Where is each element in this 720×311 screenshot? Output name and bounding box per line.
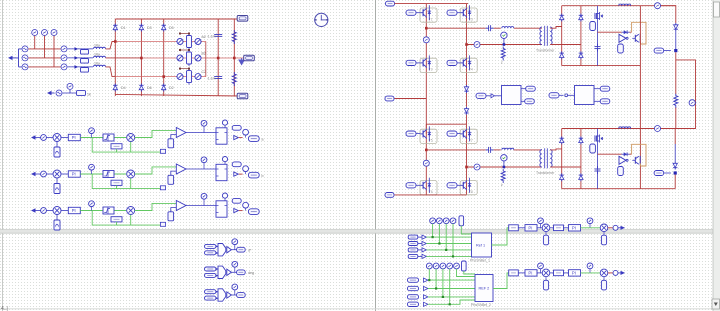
wire rect leg1 u1 <box>561 6 563 66</box>
wire label to top rail <box>395 3 420 5</box>
aux meter circle <box>67 83 73 89</box>
diode D5 <box>162 24 166 32</box>
wire <box>537 227 542 229</box>
svg-text:D3: D3 <box>147 26 152 30</box>
svg-text:D1: D1 <box>121 26 126 30</box>
diode rect D22 <box>579 136 583 144</box>
wire phase B <box>28 57 60 59</box>
current arrow A <box>75 47 79 51</box>
page boundary vertical line left <box>2 0 4 311</box>
vbox below sum1 g2 <box>543 277 548 290</box>
logic block A out top <box>521 86 535 91</box>
wire <box>550 227 554 229</box>
wire phase A bus <box>115 41 206 43</box>
green inputs lower g1 <box>426 237 471 256</box>
green bus g2 <box>429 269 475 304</box>
wire phase A <box>28 48 60 50</box>
junction sense node <box>503 43 506 46</box>
vbox below sum1 g1 <box>543 232 548 245</box>
wire secondary bottom u1 <box>550 44 581 46</box>
wire rect leg2 u2 <box>580 129 582 189</box>
wire top rail u1 <box>420 3 469 5</box>
voltmeter VC <box>51 30 57 36</box>
horizontal page band <box>0 230 720 234</box>
green wire block to chain g1 <box>492 228 510 245</box>
logic bubble B <box>565 94 568 97</box>
wire sec top rail u2 <box>562 128 676 130</box>
svg-text:PhsShBet_2: PhsShBet_2 <box>471 303 491 307</box>
snubber row B right device <box>194 55 202 61</box>
gate oval u1 <box>654 48 671 53</box>
wire clamp branch u1 <box>597 6 599 66</box>
svg-text:Transformer: Transformer <box>536 49 555 53</box>
vbox below sum2 g2 <box>601 277 606 290</box>
snubber row A box <box>179 33 192 50</box>
chain sum1 g2 <box>542 269 550 277</box>
diode D3 <box>139 24 143 32</box>
diode D4 <box>113 84 117 92</box>
current arrow B <box>75 56 79 60</box>
wire primary top u1 <box>426 27 485 29</box>
scrollbar down button <box>712 299 720 309</box>
label bottom left u2 <box>385 193 394 198</box>
chain PI2 g2 <box>569 270 581 276</box>
load loop <box>640 52 695 128</box>
wire bridge column 3 <box>163 19 165 96</box>
wire B jog to bridge <box>106 57 142 59</box>
red curl u1 <box>632 22 646 44</box>
svg-text:z: z <box>501 61 503 65</box>
wire return column <box>639 6 641 189</box>
diode series link 2 <box>464 107 468 115</box>
junction A col1 <box>114 40 117 43</box>
logic block B <box>575 86 595 105</box>
resistor R2 <box>232 72 236 86</box>
chain g1 <box>509 218 625 245</box>
snubber row A left device <box>176 39 184 45</box>
supply box u1 <box>618 44 624 53</box>
wire node to bottom rail u2 <box>674 175 676 189</box>
wire bridge column 2 <box>140 19 142 96</box>
meters row g2 <box>426 263 432 269</box>
meter primary bottom <box>474 42 480 48</box>
ground arrow mid <box>239 58 244 65</box>
wire to load corner u1 <box>661 6 676 23</box>
resistor sense u2 <box>501 169 505 183</box>
input labels g1 <box>408 235 422 239</box>
load resistor <box>674 94 678 108</box>
svg-text:REF 2: REF 2 <box>479 287 490 291</box>
gate label Q2 <box>447 10 460 15</box>
current arrow C <box>75 65 79 69</box>
junction mid cap <box>217 57 220 60</box>
junction B col2 <box>140 57 143 60</box>
capacitor series u1 <box>486 25 494 31</box>
out arrow g2 <box>621 271 626 275</box>
capacitor series u2 <box>486 147 494 153</box>
green wire block to chain g2 <box>493 273 509 289</box>
output inductor u1 <box>619 4 631 6</box>
wire dc top rail <box>115 18 240 20</box>
small circle g1 <box>613 225 618 230</box>
source VA <box>22 46 28 52</box>
svg-text:B2: B2 <box>202 52 206 56</box>
wire clamp node u2 <box>598 153 632 155</box>
mosfet clamp u1 <box>595 12 603 20</box>
logic block A <box>502 86 522 105</box>
aux port arrow <box>47 91 55 95</box>
diode rect D13 <box>560 51 564 59</box>
svg-text:PI: PI <box>528 271 532 276</box>
wire diode to node u2 <box>674 144 676 162</box>
snubber row C left device <box>176 74 184 80</box>
wire primary bottom u2 <box>467 166 542 168</box>
gate label Q8 <box>447 183 460 188</box>
capacitor C1 1.1m <box>214 34 222 37</box>
svg-text:A2: A2 <box>202 35 206 39</box>
meter above g1b <box>587 218 593 228</box>
out transistor u2 <box>632 156 640 165</box>
svg-text:Transformer: Transformer <box>536 171 555 175</box>
ammeter leg1 u2 <box>423 160 429 166</box>
capacitor clamp u2 <box>595 166 601 174</box>
resistor R1 <box>232 30 236 44</box>
diode clamp u1 <box>622 30 630 34</box>
control row 2 <box>31 157 259 194</box>
wire snubber right tie <box>205 42 207 77</box>
green junction dots g2 <box>428 279 430 281</box>
wire aux <box>62 90 76 93</box>
wire clamp node u1 <box>598 31 632 33</box>
wire bottom left u1 <box>395 98 427 100</box>
meter above g2b <box>587 263 593 273</box>
svg-text:a: a <box>262 138 264 142</box>
chain g2 <box>509 263 625 290</box>
source box g2 <box>462 261 467 271</box>
logic bubble u1 <box>491 94 494 98</box>
snubber row C box <box>179 68 192 85</box>
meter above primary bottom u2 <box>501 155 507 167</box>
inductor LA <box>94 47 106 49</box>
wire rect leg1 u2 <box>561 129 563 189</box>
IGBT Q8 <box>460 181 477 195</box>
probe mid <box>244 55 255 61</box>
capacitor clamp u1 <box>595 44 601 52</box>
sensor box C <box>81 68 89 73</box>
snubber row A right device <box>194 39 202 45</box>
svg-text:z: z <box>501 183 503 187</box>
junction primary bottom <box>465 43 468 46</box>
gate box clamp u2 <box>590 144 596 153</box>
svg-text:b: b <box>262 174 264 178</box>
svg-text:PhsShBet_1: PhsShBet_1 <box>470 259 490 263</box>
svg-text:10u: 10u <box>94 52 100 56</box>
inductor LC <box>94 65 106 67</box>
wire voltmeter stem C <box>53 36 55 67</box>
snubber row C right device <box>194 74 202 80</box>
wire secondary top u1 <box>550 27 562 29</box>
svg-text:10u: 10u <box>94 43 100 47</box>
green bus g1 <box>433 224 472 257</box>
svg-text:10u: 10u <box>94 61 100 65</box>
diode load u2 <box>673 162 677 170</box>
svg-text:D4: D4 <box>121 86 126 90</box>
chain sum1 g1 <box>542 224 550 232</box>
wire leg1 u1 <box>425 4 427 134</box>
gate label Q1 <box>406 10 420 15</box>
green junction dots g1 <box>432 236 434 238</box>
svg-text:1.1m: 1.1m <box>208 77 216 81</box>
meter above primary bottom <box>501 32 507 44</box>
phase shift block g2 <box>475 275 493 302</box>
port arrow neutral <box>8 56 16 60</box>
gate label Q6 <box>447 131 460 136</box>
ammeter leg1 u1 <box>423 37 429 43</box>
sensor box B <box>81 59 89 64</box>
wire clamp branch u2 <box>597 129 599 189</box>
snubber row B left device <box>176 55 184 61</box>
junction primary top <box>425 27 428 30</box>
diode D6 <box>139 84 143 92</box>
voltmeter VB <box>42 30 48 36</box>
wire inductor to transformer u2 <box>514 149 542 151</box>
sensor box A <box>81 50 89 55</box>
red stub g2 <box>608 272 613 274</box>
out transistor u1 <box>632 34 640 43</box>
chain box1 g2 <box>509 270 519 276</box>
meters row g1 <box>430 218 436 224</box>
small circle g2 <box>613 270 618 275</box>
wire dc bottom rail <box>115 94 240 96</box>
svg-text:1k: 1k <box>87 93 91 97</box>
node square u2 <box>674 171 677 174</box>
chain PI2 g1 <box>569 225 581 231</box>
transformer u2 <box>540 148 552 168</box>
green inputs lower g2 <box>428 280 475 304</box>
wire to load corner u2 <box>661 129 675 145</box>
IGBT Q5 <box>420 129 437 143</box>
wire leg1 u2 <box>425 124 427 195</box>
IGBT Q1 <box>420 8 437 22</box>
control row 1 <box>31 120 259 157</box>
wire B to sensor <box>67 57 93 59</box>
logic block B out bottom <box>594 99 610 104</box>
vbox below sum2 g1 <box>601 232 606 245</box>
svg-text:1.1m: 1.1m <box>208 35 216 39</box>
gate label Q4 <box>447 60 460 65</box>
chain PI g1 <box>525 225 537 231</box>
wire leg2 u1 <box>466 4 468 86</box>
gate oval u2 <box>654 171 671 176</box>
junction sense node u2 <box>503 166 506 169</box>
wire voltmeter stem B <box>44 36 46 58</box>
IGBT Q3 <box>420 58 437 72</box>
supply box u2 <box>618 167 624 176</box>
IGBT Q2 <box>460 8 477 22</box>
wire <box>518 227 525 229</box>
mux cluster 2 <box>205 261 246 278</box>
diode rect D12 <box>579 14 583 22</box>
wire diode to node u1 <box>675 31 677 51</box>
svg-text:PI: PI <box>572 226 576 231</box>
chain PI g2 <box>525 270 537 276</box>
junction C col3 <box>162 75 165 78</box>
wire neutral bus <box>16 49 22 67</box>
wire sec bottom rail u2 <box>562 188 676 190</box>
source VC <box>22 64 28 70</box>
inductor series u1 <box>502 27 514 29</box>
capacitor C2 1.1m <box>214 76 222 79</box>
aux source circle <box>56 90 62 96</box>
wire phase C <box>28 66 60 68</box>
meter above g1a <box>538 218 544 228</box>
resistor sense u1 <box>501 47 505 61</box>
red curl u2 <box>632 144 646 166</box>
logic block A out bottom <box>521 99 534 104</box>
page boundary vertical line center <box>375 0 377 311</box>
wire primary bottom u1 <box>467 44 542 46</box>
clock symbol <box>315 13 328 26</box>
svg-text:deg: deg <box>248 271 254 275</box>
svg-text:d*: d* <box>248 249 252 253</box>
wire primary top u2 <box>426 149 485 151</box>
wire bridge column 1 <box>114 19 116 96</box>
wire dc-link cap column <box>217 19 219 96</box>
wire C to sensor <box>67 66 93 68</box>
diode D2 <box>162 84 166 92</box>
wire <box>581 227 601 229</box>
IGBT Q6 <box>460 129 477 143</box>
gate box clamp u1 <box>590 22 596 31</box>
output meter u1 <box>655 3 661 9</box>
wire secondary bottom u2 <box>550 166 581 168</box>
diode rect D24 <box>579 173 583 181</box>
diode clamp u2 <box>622 152 630 156</box>
wire secondary top u2 <box>550 149 562 150</box>
phase shift block g1 <box>472 233 492 257</box>
wire rect leg2 u1 <box>580 6 582 66</box>
wire resistor column <box>233 19 235 96</box>
diode load u1 <box>674 23 678 31</box>
IGBT Q7 <box>420 181 437 195</box>
wire top rail u2 <box>426 123 466 125</box>
wire leg2 u2 <box>466 124 468 195</box>
diode rect D23 <box>560 173 564 181</box>
input label top <box>386 1 395 6</box>
mosfet clamp u2 <box>595 135 603 143</box>
junction mid res <box>233 57 236 60</box>
chain sum2 g1 <box>600 224 608 232</box>
chain box2 g2 <box>554 270 564 276</box>
chain sum2 g2 <box>600 269 608 277</box>
wire A to sensor <box>67 48 93 50</box>
transformer u1 <box>540 26 552 46</box>
gate label Q3 <box>406 60 420 65</box>
wire bottom rail u2 <box>395 194 467 196</box>
wire sec bottom rail u1 <box>562 65 641 67</box>
voltmeter VA <box>32 30 38 36</box>
wire A jog to bridge <box>106 42 116 49</box>
meter primary bottom u2 <box>474 164 480 170</box>
input labels g2 <box>408 278 419 282</box>
junction primary bottom u2 <box>465 166 468 169</box>
ammeter IB <box>61 55 67 61</box>
logic input oval u1 <box>476 93 491 98</box>
snubber row B box <box>179 49 192 66</box>
buffer u2 <box>619 156 628 164</box>
label bottom left u1 <box>385 96 394 101</box>
IGBT Q4 <box>460 58 477 72</box>
wire phase C bus <box>115 76 206 78</box>
logic input oval B <box>549 93 564 98</box>
inductor series u2 <box>502 148 514 150</box>
buffer u1 <box>619 34 628 42</box>
wire cap to inductor u2 <box>494 149 501 151</box>
source box g1 <box>459 216 464 226</box>
right scrollbar track <box>713 0 720 311</box>
node square u1 <box>674 49 677 52</box>
wire <box>564 227 569 229</box>
svg-text:D6: D6 <box>147 86 152 90</box>
wire bubble B to block <box>568 94 575 96</box>
out arrow g1 <box>621 226 626 230</box>
chain box1 g1 <box>509 225 519 231</box>
svg-text:PI: PI <box>528 226 532 231</box>
wire phase B bus <box>141 57 243 59</box>
wire bubble to block <box>494 95 501 97</box>
wire cap to inductor <box>494 27 501 29</box>
mux cluster 1 <box>205 239 246 256</box>
probe Vdc top <box>237 15 248 21</box>
mux cluster 3 <box>205 284 246 301</box>
faint bottom line <box>0 308 712 310</box>
wire sec top rail u1 <box>562 5 676 7</box>
gate label Q5 <box>406 131 420 136</box>
load probe circle <box>689 100 696 106</box>
chain box2 g1 <box>554 225 564 231</box>
output meter u2 <box>655 126 661 132</box>
diode rect D21 <box>560 136 564 144</box>
probe Vdc bottom <box>237 93 248 99</box>
svg-text:PI: PI <box>572 271 576 276</box>
wire voltmeter stem A <box>34 36 36 49</box>
svg-text:Ref 1: Ref 1 <box>476 244 485 248</box>
wire inductor to transformer <box>514 27 542 29</box>
source VB <box>22 55 28 61</box>
red stub g1 <box>608 227 613 229</box>
logic block B out top <box>594 86 610 91</box>
wire series link <box>466 93 468 124</box>
diode series link 1 <box>464 85 468 93</box>
inductor LB <box>94 56 106 58</box>
junction primary top u2 <box>425 149 428 152</box>
diode D1 <box>113 24 117 32</box>
output inductor u2 <box>619 127 631 129</box>
scrollbar thumb <box>714 2 720 17</box>
diode rect D11 <box>560 14 564 22</box>
meter above g2a <box>538 263 544 273</box>
control row 3 <box>31 193 259 230</box>
wire C jog to bridge <box>106 67 116 77</box>
svg-text:D2: D2 <box>169 86 174 90</box>
ammeter IC <box>61 64 67 70</box>
gate label Q7 <box>406 183 420 188</box>
diode rect D14 <box>579 51 583 59</box>
svg-text:D5: D5 <box>169 26 174 30</box>
ammeter IA <box>61 46 67 52</box>
svg-text:4..|: 4..| <box>1 306 8 311</box>
aux resistor box <box>77 91 86 96</box>
